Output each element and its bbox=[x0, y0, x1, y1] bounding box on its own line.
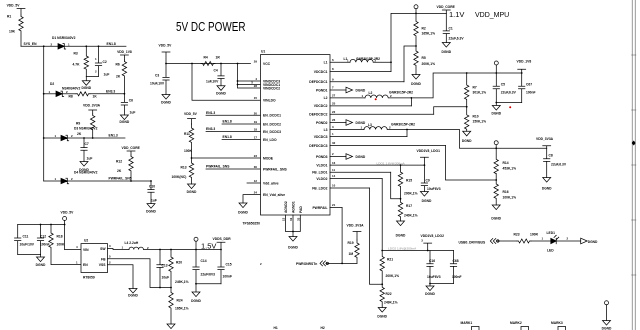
svg-text:EN3.3: EN3.3 bbox=[106, 90, 115, 94]
svg-text:R19: R19 bbox=[348, 241, 354, 245]
wire PWRFAIL to PWRONRSTn bbox=[341, 208, 343, 264]
svg-text:VDD_1V8: VDD_1V8 bbox=[517, 60, 532, 64]
svg-text:22uF/6V3: 22uF/6V3 bbox=[201, 272, 216, 276]
label H1 bbox=[274, 326, 278, 330]
wire 1.5V rail bbox=[160, 249, 221, 251]
svg-text:100K: 100K bbox=[57, 242, 66, 246]
svg-text:DGND: DGND bbox=[216, 91, 226, 95]
ground DGND under C1 bbox=[441, 43, 451, 55]
svg-text:1uF,10V: 1uF,10V bbox=[206, 79, 219, 83]
svg-text:LDO1 1.8V@200mA: LDO1 1.8V@200mA bbox=[377, 161, 406, 165]
wire FB path bbox=[108, 259, 161, 288]
capacitor C1 bbox=[443, 13, 464, 42]
wire U1 bottom pins bbox=[286, 215, 301, 237]
node VDD1V8_LDO1 bbox=[417, 149, 441, 165]
svg-text:30: 30 bbox=[254, 165, 258, 169]
svg-text:GNR3015P-2R2: GNR3015P-2R2 bbox=[356, 57, 380, 61]
junction C5 bottom bbox=[495, 102, 497, 104]
svg-text:240K,1%: 240K,1% bbox=[404, 213, 418, 217]
svg-text:C67: C67 bbox=[526, 82, 532, 86]
ground DGND under C16 bbox=[425, 284, 435, 297]
svg-text:C5: C5 bbox=[501, 82, 505, 86]
svg-text:FB: FB bbox=[101, 257, 106, 261]
svg-text:VDD_MPU: VDD_MPU bbox=[475, 12, 509, 19]
wire C5-C67 tie bbox=[496, 102, 521, 104]
connector USB0_DRVVBUS bbox=[490, 239, 499, 244]
wire Vdd_alive stub bbox=[247, 182, 261, 184]
junction VINDCDC1 bbox=[237, 80, 239, 85]
svg-text:19: 19 bbox=[254, 120, 258, 124]
svg-text:R1: R1 bbox=[7, 15, 11, 19]
svg-text:AGND1: AGND1 bbox=[292, 201, 296, 213]
node EN3.3 wire to EN_DCDC3 bbox=[206, 127, 261, 131]
svg-text:1.5V: 1.5V bbox=[201, 242, 216, 251]
frame right border bbox=[632, 0, 636, 330]
capacitor C11 bbox=[15, 225, 35, 255]
resistor R13 bbox=[172, 158, 194, 184]
svg-text:D2: D2 bbox=[50, 82, 54, 86]
svg-text:R12: R12 bbox=[116, 160, 122, 164]
wire MODE row bbox=[192, 157, 261, 159]
svg-text:VDD_3V3A: VDD_3V3A bbox=[347, 224, 365, 228]
node terminal right bbox=[605, 301, 609, 321]
junction R2-R5 bbox=[415, 45, 417, 47]
svg-text:U2: U2 bbox=[84, 239, 88, 243]
wire LED-DGND bbox=[556, 240, 581, 242]
capacitor C4 bbox=[206, 64, 224, 86]
node EN1.8 wire to EN_LDO bbox=[222, 135, 261, 139]
svg-text:VDD_CORE: VDD_CORE bbox=[437, 5, 456, 9]
svg-text:H1: H1 bbox=[274, 326, 278, 330]
svg-text:DGND: DGND bbox=[146, 210, 156, 214]
power VDD_CORE (R12) bbox=[122, 146, 141, 155]
svg-text:R24: R24 bbox=[177, 298, 183, 302]
svg-text:1uF: 1uF bbox=[130, 111, 136, 115]
svg-text:VDDS_DDR: VDDS_DDR bbox=[213, 237, 232, 241]
svg-text:L2: L2 bbox=[324, 96, 328, 100]
capacitor C15 bbox=[218, 250, 232, 284]
svg-text:R16: R16 bbox=[503, 190, 509, 194]
inductor L4 2.2uH bbox=[122, 241, 161, 250]
power VDD_CORE bar bbox=[437, 5, 456, 13]
svg-text:EN: EN bbox=[83, 263, 88, 267]
junction LDO2 R21 bbox=[381, 250, 383, 252]
svg-text:22uF,6.3V: 22uF,6.3V bbox=[551, 163, 567, 167]
svg-text:R4: R4 bbox=[204, 56, 208, 60]
svg-text:100nF: 100nF bbox=[40, 242, 50, 246]
U1 bottom pin numbers bbox=[282, 217, 301, 221]
svg-text:L1: L1 bbox=[324, 61, 328, 65]
node VDD_CORE terminal bbox=[414, 5, 418, 14]
wire LDO2 rail bbox=[382, 250, 453, 252]
power VDD_5V (R11) bbox=[184, 112, 198, 124]
ground DGND under C4 bbox=[216, 86, 226, 96]
svg-text:1uF: 1uF bbox=[87, 157, 93, 161]
svg-text:VSS: VSS bbox=[99, 263, 106, 267]
ground DGND arrow PGND2 bbox=[346, 120, 366, 126]
junction R13 bbox=[191, 157, 193, 159]
svg-text:10: 10 bbox=[332, 184, 336, 188]
capacitor C14 bbox=[193, 250, 215, 284]
node EN1.3 bbox=[109, 134, 118, 138]
svg-text:R17: R17 bbox=[406, 204, 412, 208]
node EN1.8 wire to EN_DCDC2 bbox=[222, 120, 261, 124]
svg-text:DGND: DGND bbox=[588, 240, 598, 244]
wire FB_LDO1 sense bbox=[391, 172, 401, 199]
wire VDCDC2 jog bbox=[410, 98, 412, 106]
junction C2 bbox=[98, 45, 100, 47]
capacitor C12 bbox=[37, 225, 49, 255]
svg-text:DGND: DGND bbox=[422, 199, 432, 203]
wire D2 anode bbox=[44, 93, 56, 95]
svg-text:EN1.3: EN1.3 bbox=[206, 111, 215, 115]
power VDD_1V8 bar bbox=[517, 60, 532, 74]
svg-text:200K,1%: 200K,1% bbox=[386, 274, 400, 278]
label MARK1 bbox=[461, 321, 473, 325]
svg-text:DGND: DGND bbox=[356, 155, 366, 159]
junction R21-R22 bbox=[381, 283, 383, 285]
resistor R18 bbox=[49, 225, 81, 265]
svg-text:DGND: DGND bbox=[396, 234, 406, 238]
capacitor C13 bbox=[157, 250, 169, 288]
junction R3 bbox=[85, 45, 87, 47]
node EN1.3 wire to EN_DCDC1 bbox=[206, 111, 261, 115]
node VDD_3V3A terminal bbox=[494, 141, 498, 149]
ground DGND under C3 bbox=[161, 95, 171, 105]
svg-text:EN_DCDC2: EN_DCDC2 bbox=[263, 122, 281, 126]
red marker L2 bbox=[375, 98, 377, 100]
svg-text:FB_LDO2: FB_LDO2 bbox=[312, 186, 327, 190]
svg-text:C16: C16 bbox=[429, 259, 435, 263]
svg-text:VDD_3V3A: VDD_3V3A bbox=[83, 104, 101, 108]
junction AGND bbox=[292, 231, 294, 233]
svg-text:22uF,6.3V: 22uF,6.3V bbox=[501, 91, 517, 95]
wire DEFDCDC2 sense bbox=[434, 107, 467, 115]
svg-text:D1 NSR0340V2: D1 NSR0340V2 bbox=[52, 36, 76, 40]
svg-text:H2: H2 bbox=[321, 326, 325, 330]
frame zone diamond bbox=[632, 141, 636, 146]
ground DGND under R24 bbox=[167, 324, 175, 329]
node USB0_DRVVBUS bbox=[459, 240, 486, 244]
resistor R5 bbox=[414, 46, 435, 75]
svg-text:RT8059: RT8059 bbox=[83, 275, 95, 279]
svg-text:1uF: 1uF bbox=[104, 73, 110, 77]
svg-text:R3: R3 bbox=[74, 52, 78, 56]
svg-text:R2: R2 bbox=[422, 27, 426, 31]
svg-text:R6: R6 bbox=[116, 63, 120, 67]
svg-text:16: 16 bbox=[332, 161, 336, 165]
svg-text:DGND: DGND bbox=[288, 246, 298, 250]
svg-text:DGND: DGND bbox=[238, 211, 248, 215]
wire VLDO2 to LDO2 rail bbox=[381, 179, 383, 251]
svg-text:14: 14 bbox=[332, 174, 336, 178]
junction R14-R16 bbox=[495, 179, 497, 181]
svg-text:R8: R8 bbox=[69, 95, 73, 99]
svg-text:10uF: 10uF bbox=[162, 275, 170, 279]
ground DGND under R3 bbox=[81, 76, 91, 90]
svg-text:EN_DCDC3: EN_DCDC3 bbox=[263, 130, 281, 134]
svg-text:VDD_5V: VDD_5V bbox=[61, 211, 75, 215]
wire C14-C15 tie bbox=[196, 283, 221, 285]
svg-text:21: 21 bbox=[332, 203, 336, 207]
resistor R24 bbox=[169, 288, 189, 325]
svg-text:2K: 2K bbox=[77, 132, 82, 136]
node EN3.3 bbox=[106, 90, 115, 94]
svg-text:EN_DCDC1: EN_DCDC1 bbox=[263, 114, 281, 118]
junction C16 bottom bbox=[429, 283, 431, 285]
svg-text:13: 13 bbox=[282, 217, 286, 221]
resistor R2 bbox=[414, 13, 435, 46]
svg-text:DGND: DGND bbox=[187, 190, 197, 194]
wire USB row bbox=[500, 240, 518, 242]
wire FB_LDO2 sense bbox=[370, 188, 383, 284]
svg-text:100R: 100R bbox=[530, 233, 539, 237]
svg-text:DGND: DGND bbox=[602, 327, 612, 330]
svg-text:C12: C12 bbox=[40, 234, 46, 238]
junction R9 bbox=[92, 137, 94, 139]
svg-text:VDD_3V3A: VDD_3V3A bbox=[536, 137, 554, 141]
svg-text:C68: C68 bbox=[453, 259, 459, 263]
svg-text:DGND: DGND bbox=[377, 315, 387, 319]
power VDDS_DDR bar bbox=[213, 237, 232, 250]
resistor R1 bbox=[7, 15, 23, 47]
junction R20 bottom bbox=[170, 287, 172, 289]
label pin2 bbox=[260, 262, 262, 266]
junction C67 rail bbox=[521, 72, 523, 74]
U1 right pin numbers bbox=[332, 58, 336, 207]
svg-text:USB0_DRVVBUS: USB0_DRVVBUS bbox=[459, 240, 486, 244]
resistor R11 bbox=[184, 124, 194, 158]
svg-text:SYS_EN: SYS_EN bbox=[24, 42, 38, 46]
ground DGND right bbox=[602, 321, 612, 330]
junction VDDS_DDR stem bbox=[220, 249, 222, 251]
wire D2 to R8 bbox=[62, 93, 76, 95]
svg-text:25: 25 bbox=[332, 102, 336, 106]
wire SW out bbox=[108, 249, 130, 250]
resistor R8 bbox=[69, 92, 98, 99]
junction L3 out bbox=[406, 129, 408, 131]
junction L1 out bbox=[390, 61, 392, 63]
op-amp U2 RT8059 box bbox=[81, 239, 108, 280]
svg-text:100nF: 100nF bbox=[452, 275, 462, 279]
svg-text:D4 NSR0340V2: D4 NSR0340V2 bbox=[74, 170, 98, 174]
svg-text:100K(NC): 100K(NC) bbox=[172, 175, 187, 179]
svg-text:10uF/10V: 10uF/10V bbox=[20, 242, 35, 246]
inductor L2 GNR3015P-2R2 bbox=[362, 91, 414, 98]
resistor R7 bbox=[465, 73, 487, 107]
node EN1.8 bbox=[107, 42, 116, 46]
svg-text:100nF: 100nF bbox=[526, 91, 536, 95]
svg-text:C14: C14 bbox=[201, 259, 207, 263]
label 1.1V bbox=[449, 10, 464, 19]
svg-text:26: 26 bbox=[332, 118, 336, 122]
svg-text:24: 24 bbox=[254, 191, 258, 195]
svg-text:VINDCDC2: VINDCDC2 bbox=[263, 86, 280, 90]
svg-text:2K: 2K bbox=[116, 75, 121, 79]
svg-text:165K,1%: 165K,1% bbox=[422, 32, 436, 36]
svg-text:27: 27 bbox=[332, 94, 336, 98]
svg-text:17: 17 bbox=[254, 136, 258, 140]
wire DEFDCDC1 sense bbox=[404, 46, 416, 82]
wire D1 cathode row bbox=[64, 45, 126, 47]
svg-text:EN_LDO: EN_LDO bbox=[263, 138, 277, 142]
U1 left pin numbers bbox=[251, 60, 257, 195]
capacitor C5 bbox=[493, 73, 517, 103]
capacitor C7 bbox=[81, 138, 93, 162]
power VDD_1V8 bbox=[117, 50, 132, 60]
junction R7 rail bbox=[466, 72, 468, 74]
resistor R15 bbox=[398, 165, 417, 199]
resistor R12 bbox=[116, 155, 133, 181]
junction R12 bbox=[130, 180, 132, 182]
node 1.5V terminal bbox=[194, 237, 198, 249]
junction R15 top bbox=[400, 164, 402, 166]
svg-text:U1: U1 bbox=[261, 50, 265, 54]
svg-text:15: 15 bbox=[254, 96, 258, 100]
junction C13 top bbox=[159, 249, 161, 251]
svg-text:PWRFAIL: PWRFAIL bbox=[312, 206, 327, 210]
ground DGND under R10 bbox=[462, 131, 472, 143]
svg-text:GNR3015P-2R2: GNR3015P-2R2 bbox=[391, 123, 415, 127]
wire EN_Vdd_alive bbox=[243, 195, 261, 203]
svg-text:VDCDC1: VDCDC1 bbox=[314, 70, 328, 74]
svg-text:DGND: DGND bbox=[542, 187, 552, 191]
junction LDO1 bar bbox=[424, 164, 426, 166]
svg-text:L3: L3 bbox=[368, 123, 372, 127]
svg-text:L3: L3 bbox=[324, 128, 328, 132]
wire R23-LED bbox=[531, 240, 551, 242]
LED LED1 bbox=[542, 231, 569, 253]
ground DGND under R22 bbox=[377, 308, 387, 319]
svg-text:EN1.8: EN1.8 bbox=[223, 120, 232, 124]
wire SYS_EN row bbox=[21, 45, 58, 47]
label H2 bbox=[321, 326, 325, 330]
resistor R10 bbox=[465, 107, 487, 132]
wire VSS to ground bbox=[108, 265, 134, 289]
wire C11-C12 tie bbox=[18, 254, 41, 256]
svg-text:R18: R18 bbox=[57, 234, 63, 238]
svg-text:C2: C2 bbox=[103, 60, 107, 64]
wire D4 row bbox=[44, 180, 151, 182]
svg-text:R10: R10 bbox=[473, 115, 479, 119]
wire VDD_3V3A riser bbox=[407, 130, 547, 149]
pad MARK2 bbox=[521, 327, 529, 330]
svg-text:R13: R13 bbox=[181, 165, 187, 169]
capacitor C2 bbox=[95, 46, 109, 76]
resistor R3 bbox=[73, 46, 89, 76]
power VDD_3V3A (R19) bbox=[347, 224, 365, 241]
resistor R6 bbox=[116, 60, 127, 94]
svg-text:1uF: 1uF bbox=[151, 199, 157, 203]
svg-text:VDD_5V: VDD_5V bbox=[159, 44, 173, 48]
svg-text:EN1.8: EN1.8 bbox=[223, 135, 232, 139]
svg-text:C1: C1 bbox=[449, 27, 453, 31]
svg-text:GNR3015P-2R2: GNR3015P-2R2 bbox=[389, 91, 413, 95]
svg-text:Vdd_alive: Vdd_alive bbox=[263, 181, 279, 185]
capacitor C6 bbox=[121, 94, 135, 115]
ground DGND under C9 bbox=[420, 192, 432, 204]
svg-text:5V DC POWER: 5V DC POWER bbox=[176, 20, 246, 34]
node VDD_5V terminal (U2) bbox=[61, 211, 75, 250]
ground DGND arrow PGND1 bbox=[346, 87, 366, 93]
svg-text:2K: 2K bbox=[117, 169, 122, 173]
ground DGND arrow LED bbox=[581, 238, 598, 244]
power VDD_3V3A (R9) bbox=[83, 104, 101, 115]
svg-text:200K,1%: 200K,1% bbox=[404, 192, 418, 196]
svg-text:L4 2.2uH: L4 2.2uH bbox=[125, 241, 139, 245]
junction 1.5V stem bbox=[195, 249, 197, 251]
svg-text:MARK2: MARK2 bbox=[510, 321, 522, 325]
wire PWRONRSTn row bbox=[329, 262, 357, 264]
svg-text:VDCDC3: VDCDC3 bbox=[314, 135, 328, 139]
ground DGND under U1 bbox=[288, 237, 298, 250]
capacitor C3 bbox=[150, 64, 169, 95]
junction R2 top bbox=[415, 13, 417, 15]
junction C4 bbox=[220, 63, 222, 65]
svg-text:DGND: DGND bbox=[36, 263, 46, 267]
U2 pin names bbox=[83, 247, 106, 267]
svg-text:R23: R23 bbox=[514, 233, 520, 237]
ground DGND under R13 bbox=[187, 184, 197, 194]
capacitor C68 bbox=[450, 251, 461, 284]
title bbox=[176, 20, 246, 34]
svg-text:1R: 1R bbox=[216, 56, 221, 60]
svg-text:VDD_1V8: VDD_1V8 bbox=[117, 50, 132, 54]
svg-text:PGND2: PGND2 bbox=[316, 121, 328, 125]
svg-text:100K,1%: 100K,1% bbox=[503, 195, 517, 199]
node VDD1V8_LDO2 bbox=[421, 234, 445, 251]
svg-text:DGND: DGND bbox=[425, 292, 435, 296]
svg-text:10uF6V3: 10uF6V3 bbox=[427, 187, 441, 191]
wire VDCDC3 jog bbox=[406, 130, 408, 137]
svg-text:DGND: DGND bbox=[161, 100, 171, 104]
svg-text:C15: C15 bbox=[226, 263, 232, 267]
svg-text:4.7K: 4.7K bbox=[73, 63, 81, 67]
wire D3 anode bbox=[44, 137, 61, 139]
resistor R16 bbox=[494, 180, 516, 205]
svg-text:DGND: DGND bbox=[356, 89, 366, 93]
svg-text:VDCDC2: VDCDC2 bbox=[314, 104, 328, 108]
svg-text:MODE: MODE bbox=[263, 156, 274, 160]
svg-text:33: 33 bbox=[296, 217, 300, 221]
svg-text:22: 22 bbox=[332, 110, 336, 114]
svg-text:PWRONRSTn: PWRONRSTn bbox=[296, 262, 317, 266]
svg-text:C9: C9 bbox=[426, 178, 430, 182]
ground DGND pin24 bbox=[238, 203, 248, 215]
capacitor C16 bbox=[427, 251, 441, 284]
svg-text:PGND3: PGND3 bbox=[316, 155, 328, 159]
junction R7-R10 bbox=[466, 106, 468, 108]
svg-text:1K: 1K bbox=[93, 95, 98, 99]
wire C16-C68 tie bbox=[430, 283, 454, 285]
diode D2 NSR0340V2 bbox=[49, 82, 81, 97]
node PWRONRSTn bbox=[296, 262, 317, 266]
wire D3 row bbox=[67, 137, 125, 139]
resistor R19 bbox=[348, 240, 360, 263]
svg-text:DGND: DGND bbox=[411, 82, 421, 86]
svg-text:VLDO2: VLDO2 bbox=[316, 177, 327, 181]
wire VIN row bbox=[65, 249, 81, 251]
svg-text:29: 29 bbox=[254, 60, 258, 64]
svg-text:C3: C3 bbox=[155, 73, 159, 77]
svg-text:249K,1%: 249K,1% bbox=[175, 280, 189, 284]
svg-text:28: 28 bbox=[254, 84, 258, 88]
ground DGND under C10 bbox=[146, 204, 156, 214]
svg-text:DGND: DGND bbox=[462, 139, 472, 143]
svg-text:NSR0340V2: NSR0340V2 bbox=[62, 87, 80, 91]
svg-text:453K,1%: 453K,1% bbox=[503, 166, 517, 170]
junction C13 bottom bbox=[159, 287, 161, 289]
